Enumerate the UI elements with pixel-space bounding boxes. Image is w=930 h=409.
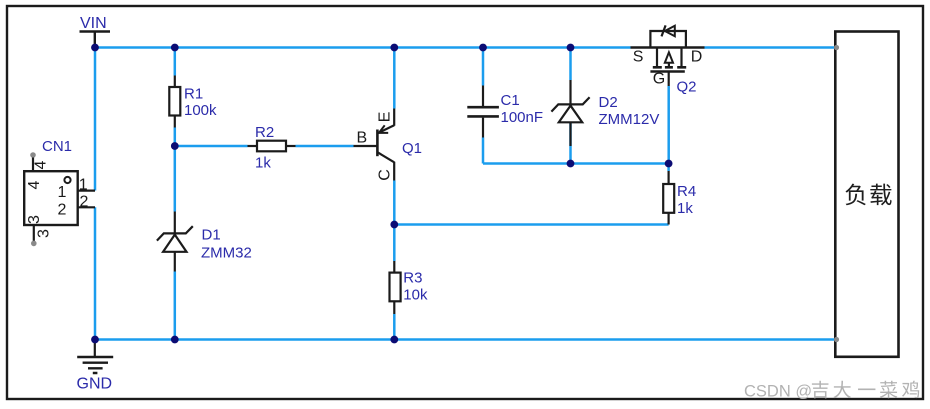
svg-text:R4: R4	[677, 183, 696, 200]
node R1/R2/D1	[171, 142, 179, 150]
svg-text:D: D	[691, 49, 703, 66]
zener diode D2 ZMM12V	[551, 80, 659, 146]
wire CN1 pin2 down to GND bus	[94, 207, 97, 339]
node C1 top	[479, 44, 487, 52]
wire D2 bottom down	[569, 122, 572, 164]
node D2 bottom	[567, 160, 575, 168]
svg-text:Q2: Q2	[677, 79, 697, 96]
wire R2 to Q1 base	[296, 145, 354, 148]
node R1 top	[171, 44, 179, 52]
load pin top	[834, 45, 839, 50]
node VIN top-left	[91, 44, 99, 52]
resistor R4 1k	[663, 171, 696, 225]
wire C1 bottom down	[482, 138, 485, 164]
svg-text:1: 1	[58, 184, 67, 201]
svg-text:1k: 1k	[255, 155, 271, 172]
node Q1 collector/R3/R4	[390, 221, 398, 229]
connector CN1	[24, 138, 95, 246]
svg-text:4: 4	[26, 181, 43, 190]
wire collector node to R4 bottom	[394, 223, 668, 226]
svg-text:10k: 10k	[403, 286, 428, 303]
wire top bus Q2 drain to load	[705, 46, 837, 49]
svg-text:1k: 1k	[677, 200, 693, 217]
wire Q1 collector down	[393, 181, 396, 225]
node D2 top	[567, 44, 575, 52]
svg-text:D1: D1	[202, 226, 221, 243]
svg-text:3: 3	[36, 229, 53, 238]
load pin bottom	[834, 337, 839, 342]
svg-text:ZMM12V: ZMM12V	[599, 111, 660, 128]
wire top bus to Q1 emitter	[393, 48, 396, 109]
wire top bus to C1	[482, 48, 485, 86]
svg-text:S: S	[633, 49, 644, 66]
svg-text:1: 1	[79, 176, 88, 193]
svg-text:C: C	[377, 169, 394, 181]
svg-text:D2: D2	[599, 94, 618, 111]
svg-text:VIN: VIN	[80, 15, 107, 32]
svg-text:100k: 100k	[184, 102, 217, 119]
svg-text:Q1: Q1	[402, 140, 422, 157]
wire node down to D1	[174, 146, 177, 212]
node GND	[91, 336, 99, 344]
resistor R3 10k	[390, 261, 428, 314]
node D1 bottom	[171, 336, 179, 344]
svg-text:B: B	[357, 130, 368, 147]
load box 负载	[835, 32, 898, 357]
ground GND	[77, 340, 114, 393]
svg-text:CN1: CN1	[42, 138, 72, 155]
svg-text:ZMM32: ZMM32	[201, 244, 252, 261]
capacitor C1 100nF	[467, 86, 543, 138]
wire top bus to R1	[174, 48, 177, 76]
svg-text:R3: R3	[403, 270, 422, 287]
svg-text:CSDN @: CSDN @	[744, 382, 812, 400]
wire node to R3	[393, 225, 396, 262]
wire R3 to GND bus	[393, 314, 396, 340]
wire Q2 gate down to node	[667, 86, 670, 164]
wire R1 to node	[174, 128, 177, 147]
node R3 bottom	[390, 336, 398, 344]
wire VIN rail down to CN1 pin1	[94, 48, 97, 191]
node gate/R4	[665, 160, 673, 168]
svg-text:R2: R2	[255, 124, 274, 141]
resistor R1 100k	[169, 76, 217, 128]
svg-text:G: G	[653, 71, 665, 88]
svg-text:C1: C1	[501, 92, 520, 109]
svg-text:2: 2	[58, 202, 67, 219]
node Q1 emitter top	[390, 44, 398, 52]
wire top bus to D2	[569, 48, 572, 81]
zener diode D1 ZMM32	[157, 212, 252, 272]
transistor Q1 PNP	[354, 109, 423, 181]
svg-text:E: E	[377, 112, 394, 123]
svg-text:3: 3	[26, 215, 43, 224]
resistor R2 1k	[248, 124, 296, 172]
wire lower node bus C1-D2-gate	[483, 162, 669, 165]
wire node to R2	[175, 145, 248, 148]
svg-text:2: 2	[80, 193, 89, 210]
wire top bus VIN to Q2 source	[95, 46, 631, 49]
watermark CSDN	[744, 381, 919, 401]
wire bottom GND bus	[95, 338, 836, 341]
svg-text:100nF: 100nF	[501, 109, 544, 126]
transistor Q2 P-channel MOSFET	[631, 25, 705, 95]
svg-text:GND: GND	[77, 375, 113, 392]
svg-text:R1: R1	[184, 85, 203, 102]
wire D1 to GND bus	[174, 272, 177, 340]
svg-text:4: 4	[33, 161, 50, 170]
power port VIN	[80, 15, 111, 48]
wire node to R4 top	[667, 164, 670, 172]
